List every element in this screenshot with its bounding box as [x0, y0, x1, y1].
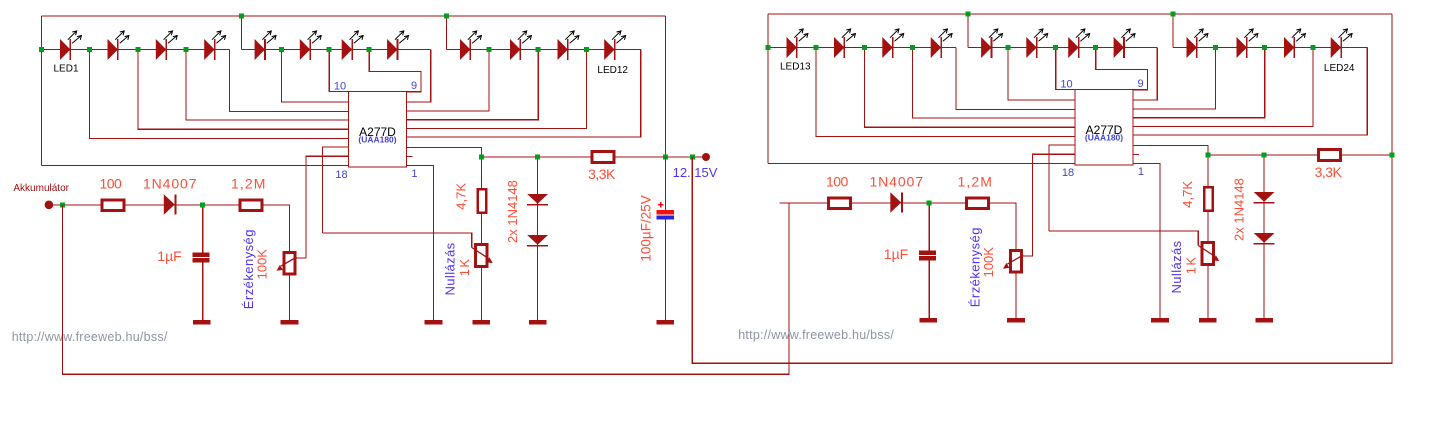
wire IC to LED9 cathode: [407, 50, 490, 111]
wire zero-set node: [323, 233, 472, 248]
wire left ref pin B to wiper: [297, 156, 349, 258]
node 1uF tap: [200, 203, 205, 208]
wire IC to LED9 cathode: [1133, 48, 1216, 109]
node LED row 9: [1311, 45, 1316, 50]
svg-text:Akkumulátor: Akkumulátor: [13, 183, 69, 194]
svg-text:4,7K: 4,7K: [1180, 181, 1195, 208]
node LED row 9: [584, 47, 589, 52]
LED D23: [1284, 29, 1305, 58]
wire battery to block2: [62, 203, 789, 374]
node rail-group2: [966, 12, 971, 17]
LED D11: [558, 31, 579, 60]
svg-text:LED24: LED24: [1324, 63, 1355, 74]
wire IC to LED11 cathode: [407, 50, 587, 129]
node LED row 6: [367, 47, 372, 52]
wire 1uF drop: [928, 203, 930, 251]
node LED row 3: [910, 45, 915, 50]
wire rail feed to LED group3: [446, 16, 448, 50]
wire LED5 cathode to IC: [1008, 48, 1075, 101]
svg-text:1K: 1K: [457, 257, 472, 276]
wire LED group2 row: [242, 49, 431, 51]
diode 1N4148 b: [1254, 233, 1275, 244]
wire LED7 cathode to pin 9: [1096, 48, 1148, 90]
wire IC to LED10 cathode: [407, 50, 539, 120]
wire LED2 cathode to IC: [865, 48, 1076, 128]
wire rail feed to LED group3: [1172, 14, 1174, 48]
svg-text:1µF: 1µF: [157, 248, 181, 264]
svg-text:http://www.freeweb.hu/bss/: http://www.freeweb.hu/bss/: [12, 330, 168, 344]
wire bus right: [1342, 154, 1392, 156]
wire 4.7K to pot: [1207, 212, 1209, 241]
LED D22: [1237, 29, 1258, 58]
svg-text:LED13: LED13: [780, 62, 811, 73]
node 1uF tap: [927, 201, 932, 206]
wire pot Erzekenyseg to ground: [1015, 273, 1017, 318]
wire 4.7K chain: [480, 157, 482, 188]
svg-text:100K: 100K: [981, 247, 996, 278]
wire right rail down to bus: [664, 16, 666, 157]
svg-text:100: 100: [826, 174, 849, 190]
LED D10: [510, 31, 531, 60]
ground below pot Erzekenyseg: [1007, 318, 1025, 323]
wire LED group2 row: [968, 47, 1157, 49]
wire pot Nullazas to ground: [1207, 266, 1209, 318]
LED D2: [108, 31, 129, 60]
svg-text:1: 1: [1138, 166, 1144, 178]
node LED row 4: [1006, 45, 1011, 50]
wire LED group1 row: [42, 49, 230, 51]
wire 1uF to ground: [202, 262, 204, 320]
svg-text:1N4007: 1N4007: [143, 176, 197, 192]
LED D19: [1068, 29, 1089, 58]
node bus 4.7K: [479, 155, 484, 160]
potentiometer Erzekenyseg 100K: [277, 252, 297, 274]
resistor R 100: [102, 200, 124, 211]
node bus out: [690, 155, 695, 160]
ground below zero-set node: [425, 320, 443, 325]
diode 1N4148 a: [1254, 192, 1275, 203]
wire IC to LED11 cathode: [1133, 48, 1313, 127]
ground below diodes: [1255, 318, 1273, 323]
wire IC ref pin to divider: [407, 147, 482, 157]
LED D15: [882, 29, 903, 58]
LED D16: [931, 29, 952, 58]
resistor R 3.3K: [1318, 150, 1340, 161]
potentiometer Nullazas 1K: [472, 245, 493, 267]
wire supply to block2: [692, 155, 1392, 363]
svg-text:(UAA180): (UAA180): [1085, 133, 1123, 143]
resistor R 1.2M: [966, 198, 988, 209]
svg-text:4,7K: 4,7K: [454, 183, 469, 210]
wire IC to LED10 cathode: [1133, 48, 1265, 118]
wire IC stub pin: [407, 155, 413, 157]
node bus diodes: [535, 155, 540, 160]
svg-text:100µF/25V: 100µF/25V: [639, 195, 654, 261]
node LED row 7: [487, 47, 492, 52]
wire LED12 cathode to IC: [1133, 48, 1367, 136]
ground below diodes: [529, 320, 547, 325]
node bus diodes: [1262, 153, 1267, 158]
wire LED6 cathode to pin 10: [329, 50, 348, 92]
terminal Akkumulator: [45, 201, 54, 210]
wire top supply rail: [768, 13, 1392, 15]
wire 4.7K chain: [1207, 155, 1209, 186]
node rail-group3: [1171, 12, 1176, 17]
LED D6: [300, 31, 321, 60]
resistor R 1.2M: [240, 200, 262, 211]
svg-text:10: 10: [1060, 79, 1072, 91]
wire bus left: [1208, 154, 1317, 156]
wire supply line: [780, 202, 1015, 204]
wire 1uF to ground: [928, 260, 930, 318]
wire 1uF drop: [202, 205, 204, 253]
svg-text:Nullázás: Nullázás: [1169, 240, 1184, 293]
wire zero-set node ground drop: [1159, 231, 1161, 318]
capacitor 1uF: [192, 253, 209, 263]
ground below zero-set node: [1151, 318, 1169, 323]
diode 1N4007: [890, 192, 902, 212]
op-amp U1 A277D IC body: [349, 92, 407, 168]
wire diode chain: [1263, 155, 1265, 318]
wire left ref pin B to wiper: [1023, 154, 1075, 256]
node LED row 2: [136, 47, 141, 52]
svg-text:12..15V: 12..15V: [673, 165, 718, 180]
node LED row 5: [1053, 45, 1058, 50]
node LED row 1: [814, 45, 819, 50]
svg-text:9: 9: [1137, 78, 1143, 90]
svg-text:1,2M: 1,2M: [231, 176, 267, 192]
wire bus left: [481, 156, 590, 158]
LED D17: [981, 29, 1002, 58]
diode 1N4148 a: [527, 194, 548, 205]
svg-text:LED1: LED1: [54, 64, 79, 75]
wire left rail down to pin 18 row: [767, 14, 769, 164]
wire zero-set node: [1049, 231, 1198, 246]
LED D8: [387, 31, 408, 60]
node LED row 2: [862, 45, 867, 50]
wire LED4 cathode to IC: [956, 48, 1075, 110]
node LED row 1: [87, 47, 92, 52]
potentiometer Erzekenyseg 100K: [1003, 250, 1023, 272]
wire bus right: [616, 156, 707, 158]
LED D20: [1114, 29, 1135, 58]
capacitor 100uF/25V: [657, 202, 674, 220]
node LED row 7: [1213, 45, 1218, 50]
resistor R 3.3K: [592, 152, 614, 163]
LED D21: [1187, 29, 1208, 58]
svg-text:3,3K: 3,3K: [1315, 164, 1343, 180]
terminal 12..15V: [702, 153, 710, 161]
svg-text:Nullázás: Nullázás: [442, 242, 457, 295]
ground below 1uF: [193, 320, 211, 325]
LED D12: [604, 31, 625, 60]
svg-text:100K: 100K: [255, 249, 270, 280]
wire left ref pin A: [323, 147, 349, 233]
wire 1.2M to pot top: [1014, 203, 1016, 249]
LED D9: [460, 31, 481, 60]
svg-text:1: 1: [411, 168, 417, 180]
diode 1N4148 b: [527, 235, 548, 246]
node rail-group2: [239, 14, 244, 19]
svg-text:9: 9: [411, 80, 417, 92]
wire supply line: [53, 204, 288, 206]
wire LED4 cathode to IC: [230, 50, 349, 112]
svg-text:http://www.freeweb.hu/bss/: http://www.freeweb.hu/bss/: [738, 328, 894, 342]
node LED row 3: [184, 47, 189, 52]
diode 1N4007: [164, 194, 176, 214]
wire LED group3 row: [1173, 47, 1367, 49]
wire rail feed to LED group2: [967, 14, 969, 48]
op-amp U2 A277D IC body: [1075, 90, 1133, 166]
LED D14: [834, 29, 855, 58]
wire LED3 cathode to IC: [913, 48, 1076, 119]
node supply entry: [60, 203, 65, 208]
node LED row 8: [536, 47, 541, 52]
wire LED12 cathode to IC: [407, 50, 641, 138]
ground below pot Nullazas: [1199, 318, 1217, 323]
LED D24: [1331, 29, 1352, 58]
node LED row 8: [1262, 45, 1267, 50]
svg-text:1,2M: 1,2M: [958, 174, 994, 190]
LED D13: [787, 29, 808, 58]
svg-text:LED12: LED12: [597, 65, 628, 76]
svg-text:2x 1N4148: 2x 1N4148: [1232, 178, 1247, 241]
resistor R 4.7K: [1204, 187, 1212, 210]
wire right rail down to bus: [1391, 14, 1393, 155]
node bus 4.7K: [1205, 153, 1210, 158]
node LED row 5: [327, 47, 332, 52]
wire LED1 cathode to IC: [90, 50, 349, 139]
svg-text:1N4007: 1N4007: [869, 174, 923, 190]
node LED row 4: [279, 47, 284, 52]
svg-text:(UAA180): (UAA180): [358, 135, 396, 145]
svg-text:1K: 1K: [1184, 255, 1199, 274]
wire pin 18 run: [768, 163, 1075, 165]
wire IC stub pin: [1133, 153, 1139, 155]
wire left ref pin A: [1049, 145, 1075, 231]
wire top supply rail: [42, 15, 666, 17]
wire 4.7K to pot: [480, 214, 482, 243]
wire diode chain: [537, 157, 539, 320]
wire rail feed to LED group2: [241, 16, 243, 50]
wire LED2 cathode to IC: [138, 50, 349, 130]
svg-text:3,3K: 3,3K: [588, 166, 616, 182]
wire LED8 cathode to IC: [1133, 48, 1157, 101]
node bus right end: [1389, 153, 1394, 158]
LED D18: [1026, 29, 1047, 58]
wire zero-set node ground drop: [433, 233, 435, 320]
LED D1: [60, 31, 81, 60]
wire pot Erzekenyseg to ground: [289, 275, 291, 320]
ground below pot Erzekenyseg: [281, 320, 299, 325]
node LED row 6: [1093, 45, 1098, 50]
wire LED group3 row: [447, 49, 641, 51]
potentiometer Nullazas 1K: [1198, 243, 1219, 265]
wire IC ref pin to divider: [1133, 145, 1208, 155]
wire LED1 cathode to IC: [816, 48, 1075, 137]
LED D7: [342, 31, 363, 60]
svg-text:100: 100: [99, 176, 122, 192]
wire pin 1 down: [407, 166, 434, 233]
LED D3: [156, 31, 177, 60]
wire LED7 cathode to pin 9: [369, 50, 421, 92]
LED D4: [204, 31, 225, 60]
node LED row 0: [766, 45, 771, 50]
resistor R 100: [829, 198, 851, 209]
node bus cap: [663, 155, 668, 160]
svg-text:10: 10: [334, 81, 346, 93]
svg-text:2x 1N4148: 2x 1N4148: [505, 180, 520, 243]
resistor R 4.7K: [478, 189, 486, 212]
wire LED8 cathode to IC: [407, 50, 431, 103]
wire 100uF drop: [664, 157, 666, 210]
wire LED5 cathode to IC: [282, 50, 349, 103]
ground below pot Nullazas: [473, 320, 491, 325]
svg-text:18: 18: [335, 169, 347, 181]
wire LED3 cathode to IC: [186, 50, 349, 121]
svg-text:18: 18: [1062, 167, 1074, 179]
wire LED group1 row: [768, 47, 956, 49]
wire left rail down to pin 18 row: [41, 16, 43, 166]
wire 1.2M to pot top: [288, 205, 290, 251]
wire pin 18 run: [42, 165, 349, 167]
wire 100uF to ground: [664, 220, 666, 320]
wire pot Nullazas to ground: [480, 268, 482, 320]
wire pin 1 down: [1133, 164, 1160, 231]
node rail-group3: [444, 14, 449, 19]
wire LED6 cathode to pin 10: [1056, 48, 1075, 90]
LED D5: [255, 31, 276, 60]
node LED row 0: [39, 47, 44, 52]
ground below 1uF: [919, 318, 937, 323]
capacitor 1uF: [919, 251, 936, 261]
ground below 100uF: [657, 320, 675, 325]
svg-text:1µF: 1µF: [884, 246, 908, 262]
